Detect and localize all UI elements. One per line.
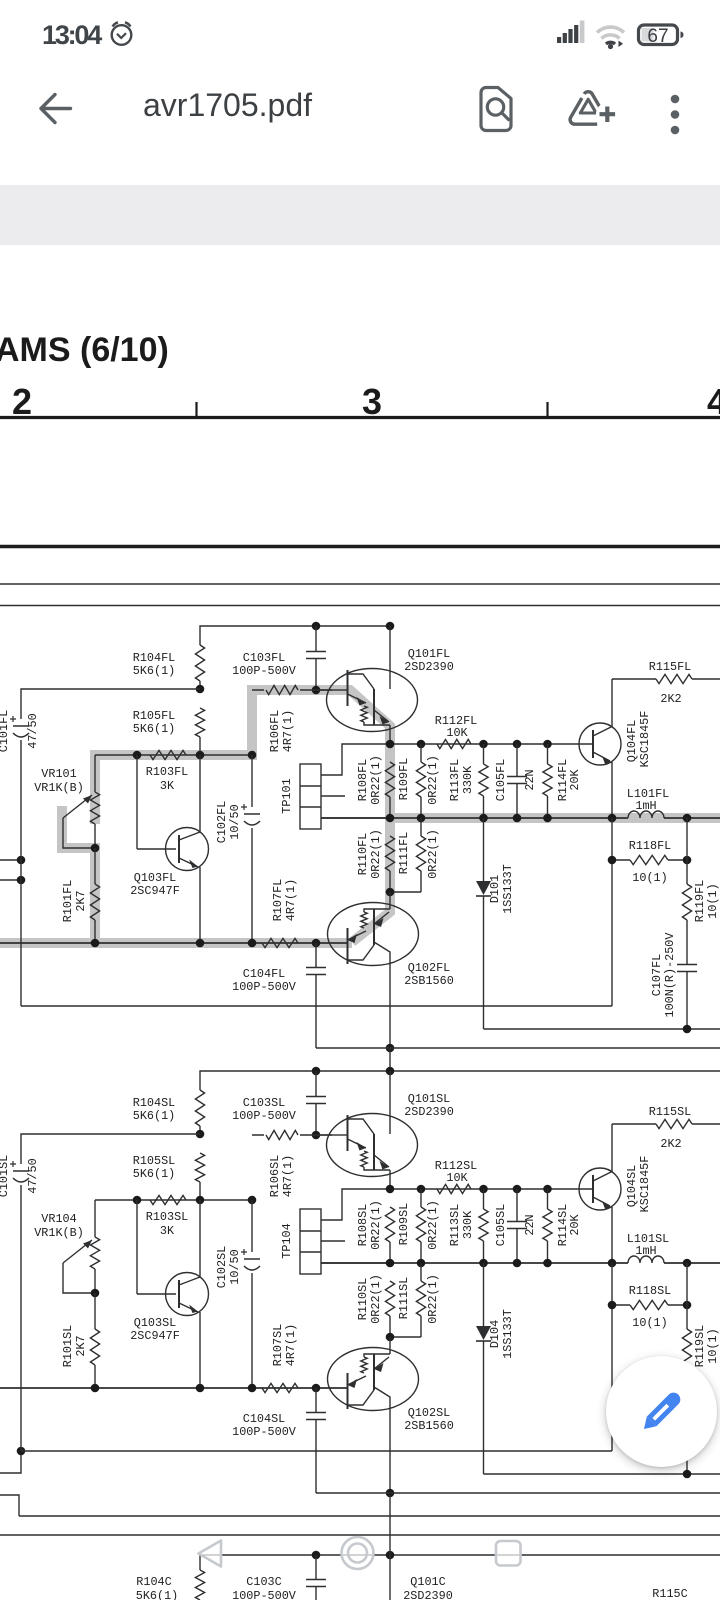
- resistor R103FL: [150, 750, 186, 759]
- svg-text:R101FL: R101FL: [61, 880, 75, 922]
- svg-text:C103FL: C103FL: [243, 651, 285, 665]
- svg-text:4R7(1): 4R7(1): [281, 710, 295, 752]
- bottom rail: [21, 1005, 612, 1007]
- svg-text:Q102SL: Q102SL: [408, 1406, 450, 1420]
- svg-text:0R22(1): 0R22(1): [369, 829, 383, 879]
- svg-text:C105FL: C105FL: [494, 759, 508, 801]
- svg-text:330K: 330K: [461, 765, 475, 794]
- svg-text:4R7(1): 4R7(1): [284, 879, 298, 921]
- svg-text:5K6(1): 5K6(1): [133, 664, 175, 678]
- diode D104: [483, 1263, 485, 1326]
- svg-text:100P-500V: 100P-500V: [232, 1109, 297, 1123]
- svg-text:R106FL: R106FL: [268, 710, 282, 752]
- resistor R112SL: [437, 1184, 471, 1193]
- svg-text:47/50: 47/50: [26, 713, 40, 748]
- lower bus line: [0, 942, 347, 944]
- wire Q102 collector down: [389, 966, 391, 1049]
- svg-text:5K6(1): 5K6(1): [133, 722, 175, 736]
- svg-text:R115FL: R115FL: [649, 660, 691, 674]
- svg-text:5K6(1): 5K6(1): [136, 1589, 178, 1600]
- svg-text:R107SL: R107SL: [271, 1324, 285, 1366]
- node pot/R101: [91, 844, 100, 853]
- node emitter join: [386, 1333, 395, 1342]
- lower bus line: [0, 1387, 347, 1389]
- input stub wire (SL): [0, 1451, 21, 1473]
- resistor R114SL: [547, 1189, 549, 1209]
- node at C103SL top: [312, 1067, 321, 1076]
- resistor R115SL: [612, 1123, 720, 1125]
- transistor Q102SL (darlington): [389, 1337, 391, 1354]
- svg-text:R113SL: R113SL: [448, 1204, 462, 1246]
- resistor R107FL: [262, 938, 298, 947]
- wire emitter join y892: [390, 1336, 421, 1338]
- svg-text:1mH: 1mH: [635, 799, 656, 813]
- svg-text:C103SL: C103SL: [243, 1096, 285, 1110]
- svg-text:R109SL: R109SL: [397, 1203, 411, 1245]
- svg-text:D104: D104: [488, 1320, 502, 1348]
- resistor R118FL: [611, 818, 613, 1006]
- svg-text:1SS133T: 1SS133T: [501, 1309, 515, 1359]
- transistor Q104FL: [579, 723, 621, 765]
- bottom long rail 1: [19, 1515, 720, 1517]
- svg-text:10/50: 10/50: [228, 1249, 242, 1284]
- block C top line: [200, 1555, 720, 1570]
- wire Q104 collector up: [611, 679, 613, 727]
- wire TP pin2 stub: [321, 795, 345, 797]
- svg-text:R111SL: R111SL: [397, 1277, 411, 1319]
- bottom rail 2: [484, 1028, 720, 1030]
- svg-text:2SD2390: 2SD2390: [403, 1589, 453, 1600]
- ruler numbers: [12, 381, 32, 423]
- node at C103FL top: [312, 622, 321, 631]
- wire top rail to R104/C103/Q101: [200, 626, 390, 645]
- svg-text:R110FL: R110FL: [356, 833, 370, 875]
- svg-text:TP101: TP101: [280, 778, 294, 813]
- svg-text:R108FL: R108FL: [356, 759, 370, 801]
- svg-text:C101SL: C101SL: [0, 1155, 11, 1197]
- capacitor C102FL: [251, 755, 253, 807]
- resistor R106SL: [252, 1134, 332, 1136]
- svg-text:2SB1560: 2SB1560: [404, 1419, 454, 1433]
- resistor R104FL: [195, 645, 204, 681]
- node Q102 collector: [386, 1489, 395, 1498]
- svg-text:R104FL: R104FL: [133, 651, 175, 665]
- wire pot wiper loop: [63, 1263, 95, 1293]
- junction nodes on output bus: [386, 814, 395, 823]
- resistor R109FL: [420, 744, 422, 762]
- node Q101C collector: [386, 1551, 395, 1560]
- resistor R107SL: [262, 1383, 298, 1392]
- svg-text:2K7: 2K7: [74, 890, 88, 911]
- svg-text:VR101: VR101: [41, 767, 76, 781]
- svg-text:100P-500V: 100P-500V: [232, 1425, 297, 1439]
- svg-text:2SC947F: 2SC947F: [130, 884, 180, 898]
- svg-text:22N: 22N: [523, 1214, 537, 1235]
- svg-text:R105SL: R105SL: [133, 1154, 175, 1168]
- svg-text:R103SL: R103SL: [146, 1210, 188, 1224]
- wire connecting FL block to SL block: [389, 1048, 391, 1071]
- horizontal rail 3: [0, 605, 720, 607]
- power rail (thick): [0, 545, 720, 549]
- resistor R114FL: [547, 744, 549, 764]
- resistor R119FL: [686, 818, 688, 884]
- svg-text:C102FL: C102FL: [215, 801, 229, 843]
- capacitor C103SL: [315, 1071, 317, 1096]
- svg-text:TP104: TP104: [280, 1223, 294, 1258]
- svg-text:VR1K(B): VR1K(B): [34, 781, 84, 795]
- svg-text:Q104FL: Q104FL: [625, 720, 639, 762]
- svg-text:C107FL: C107FL: [650, 954, 664, 996]
- input stub wires (FL): [0, 860, 21, 880]
- transistor Q101FL (darlington): [332, 689, 348, 691]
- node C107 bottom: [683, 1470, 692, 1479]
- heading AMS (6/10): [0, 331, 169, 370]
- node emitter join: [386, 888, 395, 897]
- svg-text:R118SL: R118SL: [629, 1284, 671, 1298]
- svg-text:4R7(1): 4R7(1): [281, 1155, 295, 1197]
- resistor R105SL: [195, 1153, 204, 1182]
- svg-text:C104SL: C104SL: [243, 1412, 285, 1426]
- svg-text:R119FL: R119FL: [693, 880, 707, 922]
- wire C101 down to bottom rail: [20, 740, 22, 1006]
- resistor R118SL: [611, 1263, 613, 1451]
- capacitor C101FL: [13, 725, 29, 727]
- svg-text:0R22(1): 0R22(1): [369, 1200, 383, 1250]
- resistor R104C: [195, 1570, 204, 1600]
- svg-text:1SS133T: 1SS133T: [501, 864, 515, 914]
- svg-text:100P-500V: 100P-500V: [232, 664, 297, 678]
- junction nodes on y755: [133, 751, 142, 760]
- nav home circle: [342, 1537, 374, 1569]
- ruler line and ticks: [0, 380, 720, 425]
- svg-text:10(1): 10(1): [632, 1316, 667, 1330]
- svg-text:10K: 10K: [446, 726, 468, 740]
- svg-text:1mH: 1mH: [635, 1244, 656, 1258]
- resistor R112FL: [437, 739, 471, 748]
- resistor R113FL: [483, 744, 485, 764]
- svg-text:2SD2390: 2SD2390: [404, 1105, 454, 1119]
- svg-text:KSC1845F: KSC1845F: [638, 711, 652, 768]
- wire Q101 emitter to y744: [389, 732, 391, 745]
- svg-text:R115C: R115C: [652, 1587, 687, 1600]
- svg-text:4R7(1): 4R7(1): [284, 1324, 298, 1366]
- svg-text:Q103FL: Q103FL: [134, 871, 176, 885]
- transistor Q104SL: [579, 1168, 621, 1210]
- svg-text:2SD2390: 2SD2390: [404, 660, 454, 674]
- output bus line: [321, 817, 720, 819]
- wire Q104 emitter down to bus: [611, 762, 613, 818]
- wire left rail: [21, 689, 200, 719]
- svg-text:2K7: 2K7: [74, 1335, 88, 1356]
- wire top rail to R104/C103/Q101: [200, 1071, 390, 1090]
- inductor L101SL: [628, 1256, 664, 1263]
- node C103C top: [312, 1551, 321, 1560]
- wire Q104 collector up: [611, 1124, 613, 1172]
- resistor R113SL: [483, 1189, 485, 1209]
- svg-text:C105SL: C105SL: [494, 1204, 508, 1246]
- capacitor C101SL: [13, 1170, 29, 1172]
- node C103SL bottom: [312, 1131, 321, 1140]
- svg-text:47/50: 47/50: [26, 1158, 40, 1193]
- pencil icon: [639, 1390, 683, 1434]
- diode D101: [483, 818, 485, 881]
- svg-text:R104SL: R104SL: [133, 1096, 175, 1110]
- capacitor C103FL: [315, 626, 317, 651]
- node C107 bottom: [683, 1025, 692, 1034]
- resistor R104SL: [195, 1090, 204, 1126]
- svg-text:20K: 20K: [568, 768, 582, 790]
- svg-text:10K: 10K: [446, 1171, 468, 1185]
- resistor R108SL: [385, 1207, 394, 1242]
- svg-text:KSC1845F: KSC1845F: [638, 1156, 652, 1213]
- wire y744 line: [390, 743, 593, 745]
- resistor R110FL: [385, 836, 394, 871]
- svg-text:10(1): 10(1): [632, 871, 667, 885]
- wire C103 bottom to Q101 base: [316, 689, 332, 691]
- resistor R110SL: [385, 1281, 394, 1316]
- svg-text:VR104: VR104: [41, 1212, 76, 1226]
- svg-text:100N(R)-250V: 100N(R)-250V: [663, 932, 677, 1018]
- toolbar back arrow: [0, 0, 720, 180]
- toolbar add-annotation icon: [570, 92, 619, 126]
- transistor Q103SL: [136, 1200, 138, 1294]
- wire Q102 collector down: [389, 1411, 391, 1494]
- resistor R101SL: [94, 1293, 96, 1329]
- svg-text:330K: 330K: [461, 1210, 475, 1239]
- svg-text:2SB1560: 2SB1560: [404, 974, 454, 988]
- wire TP pin1 to y744 line: [321, 744, 390, 775]
- svg-text:C101FL: C101FL: [0, 710, 11, 752]
- resistor R109SL: [420, 1189, 422, 1207]
- wire pot wiper loop: [63, 818, 95, 848]
- svg-text:R108SL: R108SL: [356, 1204, 370, 1246]
- wire mid line y755: [95, 754, 252, 756]
- wire Q101C collector down: [389, 1495, 391, 1600]
- nav back triangle: [0, 1520, 720, 1580]
- wire TP pin2 stub: [321, 1240, 345, 1242]
- status bar icons (alarm, signal, wifi, battery): [0, 0, 720, 60]
- junction nodes on y755: [133, 1196, 142, 1205]
- svg-text:R111FL: R111FL: [397, 832, 411, 874]
- wire Q101 emitter to y744: [389, 1177, 391, 1190]
- svg-text:2K2: 2K2: [660, 692, 681, 706]
- potentiometer VR101: [94, 755, 96, 792]
- svg-text:R101SL: R101SL: [61, 1325, 75, 1367]
- wire Q104 emitter down to bus: [611, 1207, 613, 1263]
- svg-text:0R22(1): 0R22(1): [369, 755, 383, 805]
- svg-text:2K2: 2K2: [660, 1137, 681, 1151]
- transistor Q103FL: [136, 755, 138, 849]
- highlighted signal path (gray trace): [0, 690, 720, 943]
- capacitor C104FL: [315, 943, 317, 968]
- wire left rail: [21, 1134, 200, 1164]
- status bar clock: [42, 20, 100, 51]
- svg-text:Q102FL: Q102FL: [408, 961, 450, 975]
- resistor R119SL: [686, 1263, 688, 1329]
- svg-text:D101: D101: [488, 875, 502, 903]
- svg-text:2SC947F: 2SC947F: [130, 1329, 180, 1343]
- resistor R101FL: [94, 848, 96, 884]
- svg-text:22N: 22N: [523, 769, 537, 790]
- svg-text:R113FL: R113FL: [448, 759, 462, 801]
- node R104FL/R105FL: [196, 685, 205, 694]
- wire R104 to node: [199, 1126, 201, 1134]
- wire mid line y755: [95, 1199, 252, 1201]
- wire emitter join y892: [390, 891, 421, 893]
- wire C101 down to bottom rail: [20, 1185, 22, 1451]
- nav recents square: [496, 1541, 521, 1566]
- node at Q101SL collector top: [386, 1067, 395, 1076]
- inductor L101FL: [628, 811, 664, 818]
- horizontal rail 2: [0, 583, 720, 585]
- transistor Q102FL (darlington): [389, 892, 391, 909]
- bottom rail 2: [484, 1473, 720, 1475]
- resistor R106FL: [252, 689, 332, 691]
- toolbar overflow menu: [671, 95, 680, 135]
- wire R104 to node: [199, 681, 201, 689]
- svg-text:R115SL: R115SL: [649, 1105, 691, 1119]
- bottom rail jog at left: [0, 1495, 19, 1516]
- node C103FL bottom: [312, 686, 321, 695]
- node Q102 collector: [386, 1044, 395, 1053]
- svg-text:0R22(1): 0R22(1): [426, 1274, 440, 1324]
- capacitor C103C: [315, 1555, 317, 1579]
- resistor R103SL: [150, 1195, 186, 1204]
- bottom long rail 2: [0, 1534, 720, 1536]
- capacitor C105SL: [516, 1189, 518, 1222]
- svg-text:R110SL: R110SL: [356, 1278, 370, 1320]
- bottom rail: [21, 1450, 612, 1452]
- bottom rail 3: [316, 1047, 720, 1049]
- junction nodes on y744: [386, 1185, 395, 1194]
- toolbar find-in-page icon: [481, 88, 511, 131]
- capacitor C102SL: [251, 1200, 253, 1252]
- svg-text:3K: 3K: [160, 779, 175, 793]
- svg-text:0R22(1): 0R22(1): [426, 1200, 440, 1250]
- svg-text:100P-500V: 100P-500V: [232, 980, 297, 994]
- svg-text:Q101SL: Q101SL: [408, 1092, 450, 1106]
- svg-text:C104FL: C104FL: [243, 967, 285, 981]
- capacitor C107SL: [677, 1409, 697, 1411]
- junction nodes on y744: [386, 740, 395, 749]
- transistor Q101SL (darlington): [332, 1134, 348, 1136]
- wire y744 line: [390, 1188, 593, 1190]
- svg-text:R105FL: R105FL: [133, 709, 175, 723]
- wire TP pin3 to output bus: [321, 817, 390, 819]
- resistor R111FL: [420, 818, 422, 836]
- test point connector TP104: [300, 1209, 321, 1274]
- svg-text:0R22(1): 0R22(1): [426, 829, 440, 879]
- svg-text:Q101FL: Q101FL: [408, 647, 450, 661]
- svg-text:0R22(1): 0R22(1): [426, 755, 440, 805]
- svg-text:3K: 3K: [160, 1224, 175, 1238]
- resistor R105FL: [195, 708, 204, 737]
- svg-text:R106SL: R106SL: [268, 1155, 282, 1197]
- bottom rail 3: [316, 1492, 720, 1494]
- wire R105 to y755 line: [199, 737, 201, 755]
- node pot/R101: [91, 1289, 100, 1298]
- svg-text:VR1K(B): VR1K(B): [34, 1226, 84, 1240]
- svg-text:10/50: 10/50: [228, 804, 242, 839]
- svg-text:0R22(1): 0R22(1): [369, 1274, 383, 1324]
- junction nodes on lower bus: [91, 939, 100, 948]
- svg-text:R103FL: R103FL: [146, 765, 188, 779]
- capacitor C107FL: [677, 964, 697, 966]
- wire C103 bottom to Q101 base: [316, 1134, 332, 1136]
- svg-text:R107FL: R107FL: [271, 879, 285, 921]
- resistor R108FL: [385, 762, 394, 797]
- capacitor C104SL: [315, 1388, 317, 1413]
- svg-text:R118FL: R118FL: [629, 839, 671, 853]
- wire TP pin3 to output bus: [321, 1262, 390, 1264]
- capacitor C105FL: [516, 744, 518, 777]
- svg-text:100P-500V: 100P-500V: [232, 1589, 297, 1600]
- potentiometer VR104: [94, 1200, 96, 1237]
- svg-text:5K6(1): 5K6(1): [133, 1167, 175, 1181]
- test point connector TP101: [300, 764, 321, 829]
- svg-text:Q104SL: Q104SL: [625, 1165, 639, 1207]
- svg-text:10(1): 10(1): [706, 883, 720, 918]
- svg-text:Q103SL: Q103SL: [134, 1316, 176, 1330]
- wire TP pin1 to y744 line: [321, 1189, 390, 1220]
- junction nodes on lower bus: [91, 1384, 100, 1393]
- junction nodes on output bus: [386, 1259, 395, 1268]
- toolbar title: [143, 87, 312, 124]
- node at Q101FL collector top: [386, 622, 395, 631]
- page gap strip: [0, 185, 720, 245]
- wire R105 to y755 line: [199, 1182, 201, 1200]
- svg-text:5K6(1): 5K6(1): [133, 1109, 175, 1123]
- output bus line: [321, 1262, 720, 1264]
- floating action button (edit): [606, 1356, 717, 1467]
- svg-text:20K: 20K: [568, 1213, 582, 1235]
- svg-text:R109FL: R109FL: [397, 758, 411, 800]
- resistor R115FL: [612, 678, 720, 680]
- resistor R111SL: [420, 1263, 422, 1281]
- svg-text:C102SL: C102SL: [215, 1246, 229, 1288]
- node R104SL/R105SL: [196, 1130, 205, 1139]
